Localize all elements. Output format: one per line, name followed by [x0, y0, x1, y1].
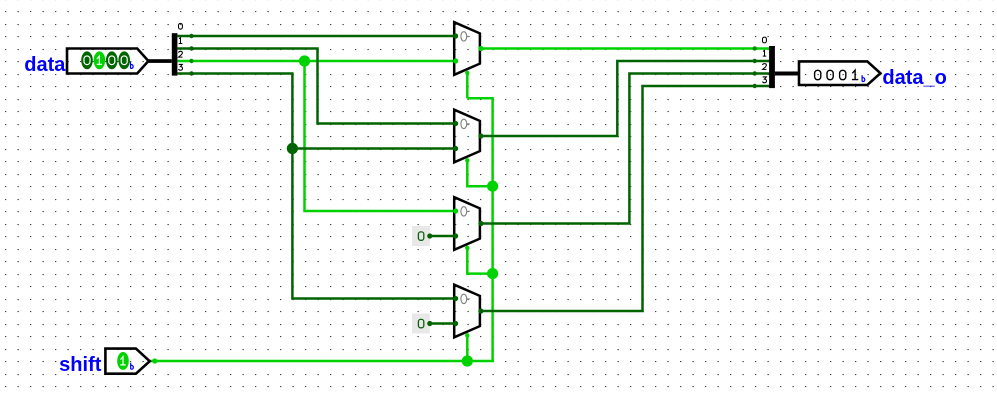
- wire U3 output to splitter SP2 bit2: [480, 74, 770, 224]
- U3 zero marker: [461, 207, 467, 216]
- op body U2: [454, 110, 480, 163]
- SP1 bar: [172, 33, 178, 75]
- op body U1: [454, 22, 480, 75]
- wire U2 output to splitter SP2 bit1: [480, 61, 770, 136]
- svg-text:shift: shift: [59, 354, 102, 376]
- SP2 bar: [769, 46, 775, 88]
- data_o radix b: [862, 75, 865, 81]
- SP1 bus stub: [148, 59, 172, 63]
- wire data[2] branch down to mux U3 in0: [305, 61, 456, 211]
- svg-text:data_o: data_o: [882, 67, 946, 89]
- wire U4 output to splitter SP2 bit3: [480, 86, 770, 311]
- wire U1 select: [466, 72, 469, 99]
- data bit3 oval (0): [81, 51, 93, 69]
- SP2 bit labels 0-3: [763, 37, 767, 83]
- data bit digits: [84, 56, 127, 65]
- wire shift select trunk: [467, 98, 492, 361]
- node U4 select junction: [462, 355, 473, 366]
- wire data[1] from splitter SP1 to mux U2 in0: [177, 49, 455, 124]
- op body U3: [454, 197, 480, 250]
- U3 port dots: [453, 208, 458, 213]
- svg-text:data: data: [24, 54, 66, 76]
- U1 zero marker: [461, 32, 467, 41]
- wire U2 select: [467, 159, 492, 186]
- op body U4: [454, 285, 480, 338]
- SP1 pin dots: [189, 34, 193, 76]
- node U3 select junction: [487, 268, 498, 279]
- U2 port dots: [453, 121, 458, 126]
- U4 zero marker: [461, 294, 467, 303]
- U4 port dots: [453, 296, 458, 301]
- U2 zero marker: [461, 119, 467, 128]
- shift bit oval (1): [117, 352, 129, 370]
- wire data[3] branch to mux U2 in1: [292, 147, 455, 150]
- pin body data_o: [799, 61, 880, 85]
- U1 port dots: [453, 33, 458, 38]
- data_o digits: [815, 70, 859, 80]
- pin body data: [67, 49, 148, 74]
- SP1 bit labels 0-3: [179, 23, 183, 70]
- wire data[2] from splitter SP1 to mux U1 in1: [177, 60, 455, 63]
- node data[3] branch junction: [287, 143, 298, 154]
- SP2 bus stub: [775, 72, 799, 76]
- wire data[3] from splitter SP1 to mux U4 in0: [177, 74, 455, 299]
- data bit0 oval (0): [118, 51, 130, 69]
- wire U1 output to splitter SP2 bit0: [480, 47, 770, 50]
- data bit1 oval (0): [106, 51, 118, 69]
- data bit2 oval (1): [94, 51, 106, 69]
- wire constant C2 to mux U4 in1: [428, 322, 456, 325]
- bright junction dots: [299, 55, 498, 366]
- wire shift from pin to trunk: [150, 360, 494, 363]
- wire constant C1 to mux U3 in1: [428, 235, 456, 238]
- wire U4 select: [466, 334, 469, 361]
- wire U3 select: [467, 247, 492, 274]
- shift bit digit (1): [120, 357, 125, 365]
- shift pin connection dot: [152, 358, 157, 363]
- node data[2] branch junction: [299, 55, 310, 66]
- data radix b: [131, 62, 134, 68]
- pin body shift: [105, 349, 149, 374]
- node U2 select junction: [487, 181, 498, 192]
- dark junction dots: [287, 143, 298, 154]
- wire data[0] from splitter SP1 to mux U1 in0: [177, 35, 455, 38]
- shift radix b: [131, 363, 134, 369]
- SP2 pin dots: [753, 46, 757, 88]
